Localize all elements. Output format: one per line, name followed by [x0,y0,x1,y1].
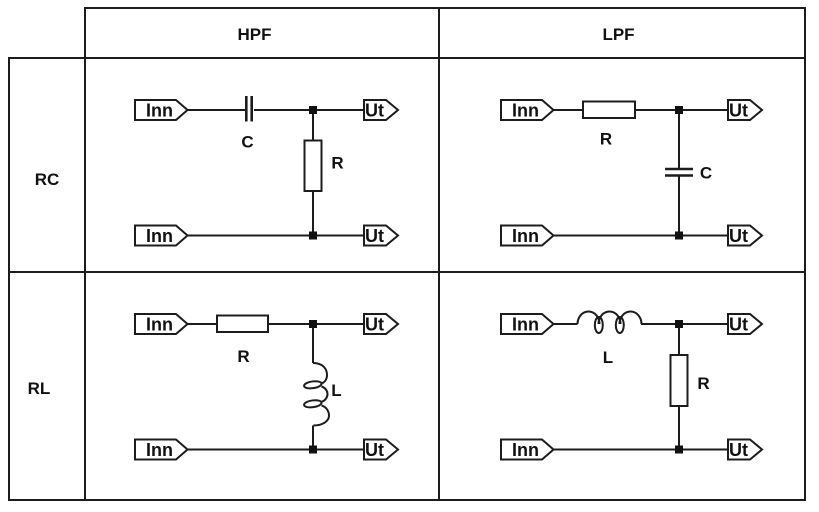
svg-text:Inn: Inn [146,315,173,335]
svg-text:Ut: Ut [365,101,384,121]
svg-text:Ut: Ut [365,226,384,246]
svg-text:Ut: Ut [365,440,384,460]
svg-text:Inn: Inn [512,315,539,335]
svg-text:Ut: Ut [729,315,748,335]
svg-text:Inn: Inn [512,440,539,460]
svg-text:Ut: Ut [729,440,748,460]
svg-text:C: C [700,164,712,183]
svg-text:RC: RC [35,170,60,189]
svg-text:RL: RL [28,379,51,398]
svg-text:R: R [237,347,249,366]
svg-text:Inn: Inn [512,101,539,121]
svg-text:R: R [331,154,343,173]
svg-text:Ut: Ut [729,101,748,121]
svg-text:R: R [697,374,709,393]
svg-text:Inn: Inn [146,101,173,121]
svg-text:Inn: Inn [512,226,539,246]
svg-text:Inn: Inn [146,440,173,460]
svg-text:LPF: LPF [602,25,634,44]
svg-text:R: R [600,130,612,149]
svg-text:Ut: Ut [365,315,384,335]
svg-text:HPF: HPF [238,25,272,44]
svg-text:L: L [331,381,341,400]
svg-text:Ut: Ut [729,226,748,246]
svg-text:L: L [603,348,613,367]
svg-text:C: C [241,133,253,152]
svg-text:Inn: Inn [146,226,173,246]
